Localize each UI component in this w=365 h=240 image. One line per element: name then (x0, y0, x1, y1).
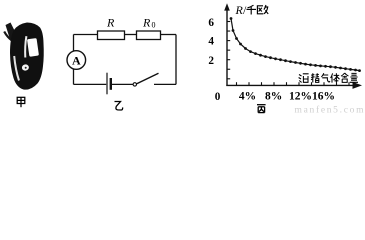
svg-text:6: 6 (208, 17, 214, 29)
svg-text:8%: 8% (265, 91, 282, 103)
screen (27, 38, 39, 57)
qi 气 (321, 73, 329, 82)
svg-text:4: 4 (208, 35, 214, 47)
y-axis arrowhead (224, 3, 230, 10)
ou 欧 (257, 6, 263, 14)
R(x) data curve (231, 19, 360, 71)
battery cell: short thick plate (-) (110, 78, 112, 90)
wire left lower (73, 69, 75, 85)
han 含 (341, 73, 348, 82)
screen bezel gap (25, 36, 26, 57)
wire right side (175, 35, 177, 85)
resistor R (98, 31, 125, 40)
wire top-right (161, 34, 177, 36)
wire between R and R0 (125, 34, 137, 36)
x ticks (237, 82, 350, 85)
label bing (丙) (257, 105, 266, 113)
wire battery to switch (112, 83, 133, 85)
ammeter A1 (67, 51, 86, 70)
resistor R0 (137, 31, 161, 40)
wire left upper (73, 35, 75, 52)
curve data dots (230, 17, 361, 72)
wire bottom-right (fixed contact of switch) (154, 83, 176, 85)
label jia (甲) (17, 97, 25, 107)
mouthpiece (6, 23, 18, 42)
battery cell: long plate (+) (106, 73, 108, 95)
left highlight (14, 56, 19, 81)
breathalyzer device (photo, left) (4, 23, 44, 90)
body (10, 23, 44, 90)
x-axis label jiujing qiti hanliang (酒精气体含量) (299, 73, 358, 83)
svg-text:4%: 4% (239, 91, 256, 103)
svg-text:2: 2 (208, 55, 214, 67)
jiu 酒 (299, 75, 302, 83)
y ticks (227, 22, 230, 79)
ti 体 (331, 73, 333, 82)
wire top-left (74, 34, 98, 36)
x-axis (226, 84, 354, 86)
svg-text:0: 0 (215, 91, 221, 103)
switch S blade (136, 73, 158, 84)
svg-text:/: / (243, 3, 247, 17)
svg-text:0: 0 (152, 21, 156, 30)
svg-text:16%: 16% (312, 91, 335, 103)
y-axis (226, 9, 228, 86)
jing 精 (311, 73, 315, 82)
button dot (25, 67, 27, 69)
liang 量 (350, 73, 358, 82)
svg-text:R: R (106, 16, 115, 30)
switch pivot (133, 83, 136, 86)
wire bottom-left (74, 83, 107, 85)
svg-text:12%: 12% (289, 91, 312, 103)
svg-text:A: A (72, 53, 81, 67)
svg-text:manfen5.com: manfen5.com (295, 105, 365, 114)
svg-text:R: R (142, 16, 151, 30)
button (21, 64, 29, 72)
label yi (乙) (115, 102, 123, 111)
x-axis arrowhead (353, 82, 363, 89)
qian 千 (248, 5, 254, 8)
